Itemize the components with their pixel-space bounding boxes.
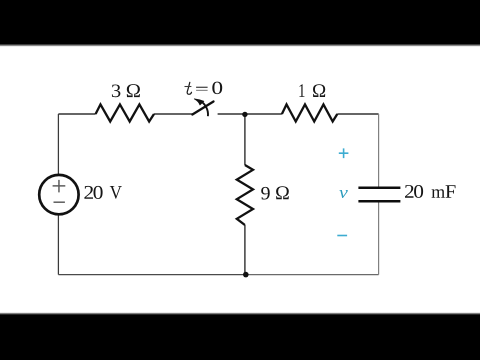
label Omega (9-ohm) — [276, 186, 289, 199]
wire bottom right segment — [246, 274, 379, 276]
label F (20 mF) — [446, 185, 456, 198]
wire top-left horizontal — [58, 113, 95, 115]
capacitor C1 bottom plate — [358, 200, 400, 203]
wire middle branch lower (9-ohm to bottom node) — [244, 225, 246, 275]
bottom node junction dot — [243, 272, 249, 278]
label 2 (20 mF) — [405, 185, 414, 198]
wire bottom left segment — [58, 274, 245, 276]
voltage source V1 minus sign — [54, 201, 65, 203]
label t (switch) crossbar — [185, 86, 192, 88]
label Omega (3-ohm) — [127, 84, 140, 97]
capacitor C1 top plate — [358, 187, 400, 190]
label v (capacitor voltage) — [339, 190, 348, 198]
letterbox top bar — [0, 0, 480, 44]
wire middle branch upper (node A to 9-ohm) — [244, 114, 246, 165]
resistor R3 9-ohm vertical zigzag — [237, 165, 253, 225]
label Omega (1-ohm) — [313, 84, 325, 97]
voltage source V1 circle — [39, 175, 78, 214]
wire left vertical upper (corner to source) — [57, 114, 59, 175]
wire right vertical upper (to capacitor top plate) — [378, 114, 380, 187]
label = upper bar (switch) — [196, 86, 208, 88]
wire from switch to node A and to 1-ohm resistor — [218, 113, 282, 115]
label 0 (switch) — [212, 82, 222, 95]
voltage source V1 plus sign — [53, 180, 66, 193]
wire right vertical lower (capacitor bottom plate to bottom) — [378, 202, 380, 274]
node A junction dot — [242, 112, 247, 117]
label V (20 V) — [110, 186, 122, 199]
capacitor voltage minus sign (cyan) — [337, 235, 347, 237]
label 0 (20 mF) — [414, 185, 423, 198]
switch SW1 opening arc — [199, 100, 208, 116]
label 3 (3-ohm) — [112, 85, 121, 98]
label m (20 mF) — [432, 189, 445, 198]
switch SW1 blade — [192, 102, 213, 115]
resistor R2 1-ohm zigzag — [282, 104, 337, 121]
label 0 (20 V) — [94, 186, 103, 199]
capacitor voltage plus sign (cyan) — [339, 148, 349, 158]
wire from 1-ohm resistor to top-right corner — [337, 113, 378, 115]
switch SW1 arrowhead — [194, 99, 204, 105]
label 2 (20 V) — [84, 186, 93, 199]
letterbox bottom bar — [0, 315, 480, 360]
label t (switch) stem and hook — [187, 82, 191, 94]
label 1 (1-ohm) — [299, 84, 304, 97]
resistor R1 3-ohm zigzag — [96, 104, 154, 121]
wire left vertical lower (source to bottom corner) — [57, 215, 59, 275]
label = lower bar (switch) — [196, 89, 208, 91]
wire between 3-ohm resistor and switch — [154, 113, 192, 115]
label 9 (9-ohm) — [261, 187, 270, 200]
